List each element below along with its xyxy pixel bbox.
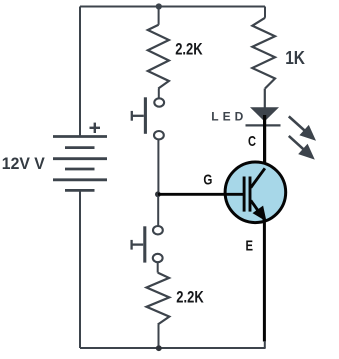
resistor R3 1K: [252, 18, 275, 89]
wire R1 to SW1: [158, 89, 160, 99]
light arrow 1: [289, 116, 316, 140]
svg-text:2.2K: 2.2K: [175, 41, 202, 59]
transistor Q1 collector diagonal: [251, 168, 265, 187]
node top junction: [156, 3, 162, 9]
battery plus sign: [90, 123, 101, 133]
pushbutton SW1: [132, 97, 164, 139]
transistor Q1 body: [225, 162, 286, 223]
svg-text:C: C: [248, 133, 256, 150]
wire top node to R1: [158, 7, 160, 25]
wire node G to SW2: [157, 194, 159, 226]
light arrow 2: [289, 136, 315, 160]
wire R3 to LED: [264, 89, 266, 109]
wire bottom: [80, 347, 266, 349]
wire collector thick: [263, 115, 266, 170]
svg-text:12V V: 12V V: [2, 155, 45, 173]
transistor Q1 emitter diagonal: [251, 200, 266, 221]
svg-text:E: E: [246, 237, 254, 254]
svg-text:1K: 1K: [285, 47, 305, 68]
transistor Q1 emitter arrowhead: [253, 206, 267, 222]
wire top: [80, 6, 265, 8]
wire emitter to bottom: [264, 341, 266, 348]
wire left lower: [79, 190, 81, 348]
wire right top corner: [264, 7, 266, 18]
node bottom junction: [156, 345, 162, 351]
node G junction: [155, 191, 161, 197]
wire SW1 to node G: [157, 139, 159, 194]
battery V1 12V: [53, 137, 107, 191]
svg-text:G: G: [203, 171, 212, 188]
wire emitter thick: [263, 221, 266, 342]
wire R2 to bottom node: [158, 325, 160, 349]
wire SW2 to R2: [157, 262, 159, 273]
LED D1 cathode bar: [246, 124, 281, 126]
wire gate thick: [158, 193, 244, 196]
svg-text:2.2K: 2.2K: [176, 288, 203, 306]
resistor R1 2.2K: [148, 25, 169, 89]
LED D1 anode triangle: [250, 107, 279, 121]
transistor Q1 gate bars: [244, 177, 250, 212]
wire left upper: [79, 7, 81, 137]
svg-text:LED: LED: [211, 110, 243, 124]
pushbutton SW2: [132, 226, 163, 263]
resistor R2 2.2K: [147, 273, 170, 325]
